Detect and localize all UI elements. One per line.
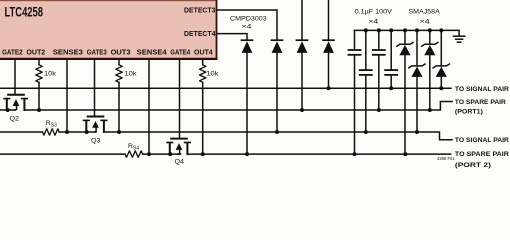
svg-text:×4: ×4 (420, 19, 430, 26)
wire GND top rail (354, 30, 459, 35)
svg-text:SENSE4: SENSE4 (137, 48, 168, 57)
wire GATE2 pin down (14, 60, 16, 94)
wire diode D3 from top edge (301, 0, 303, 40)
resistor 10k (OUT2) (36, 65, 42, 83)
junction Q4 source-rail R4 (168, 152, 172, 156)
svg-text:Q4: Q4 (175, 158, 185, 165)
transistor Q4 MOSFET (167, 139, 190, 155)
resistor RS3 (43, 129, 60, 135)
transistor Q2 MOSFET (4, 95, 27, 110)
resistor 10k (OUT4) (200, 65, 206, 83)
svg-text:OUT2: OUT2 (26, 48, 45, 57)
wire rail R3 TO SIGNAL PAIR port2, broken at Q3 and RS3 (0, 131, 43, 133)
svg-text:GATE3: GATE3 (87, 48, 107, 57)
diode D1 CMPD3003 (242, 40, 253, 154)
svg-text:4258 F01: 4258 F01 (437, 156, 455, 161)
junction Z2-GND rail (415, 28, 419, 32)
svg-text:×4: ×4 (368, 19, 378, 26)
wire OUT3 pin down (118, 60, 120, 65)
junction SENSE3-rail R3 (65, 130, 69, 134)
IC U1 LTC4258 quad PSE controller (0, 0, 217, 60)
wire OUT2 resistor to rail R2 (38, 82, 40, 110)
junction Z3-GND rail (428, 28, 432, 32)
junction D2-rail R3 (275, 130, 279, 134)
junction Q3 source-rail R3 (85, 130, 89, 134)
capacitor C1 0.1uF (349, 30, 361, 154)
capacitor C3 0.1uF (373, 30, 385, 110)
wire rail R2 TO SPARE PAIR port1, broken at Q2 (0, 109, 15, 111)
junction Z1-rail R4 (403, 152, 407, 156)
wire DETECT3 to diode D2 (217, 10, 277, 40)
svg-text:(PORT1): (PORT1) (455, 109, 483, 116)
junction D3-rail R2 (300, 108, 304, 112)
svg-text:SMAJ58A: SMAJ58A (408, 8, 440, 15)
wire OUT4 resistor to rail R4 (202, 82, 204, 154)
junction Z1-GND rail (403, 28, 407, 32)
svg-text:OUT4: OUT4 (194, 48, 214, 57)
junction Z4-GND rail (439, 28, 443, 32)
resistor RS4 (125, 151, 143, 157)
svg-text:TO SIGNAL PAIR: TO SIGNAL PAIR (455, 86, 509, 93)
wire rail R1 TO SIGNAL PAIR port1 (0, 87, 451, 89)
junction D1-rail R4 (245, 152, 249, 156)
transistor Q3 MOSFET (84, 117, 107, 133)
junction C2-GND rail (364, 28, 368, 32)
wire OUT2 pin down (38, 60, 40, 65)
capacitor C4 0.1uF (385, 30, 397, 88)
TVS diode Z3 SMAJ58A (422, 30, 438, 110)
capacitor C2 0.1uF (360, 30, 372, 132)
svg-text:TO SPARE PAIR: TO SPARE PAIR (455, 151, 509, 158)
wire SENSE4 pin down to rail R4 (148, 60, 150, 154)
svg-text:10k: 10k (125, 70, 138, 77)
wire SENSE3 pin down to rail R3 (66, 60, 68, 132)
svg-text:LTC4258: LTC4258 (5, 5, 44, 20)
svg-text:10k: 10k (206, 70, 219, 77)
svg-text:Q2: Q2 (10, 116, 20, 123)
junction D4-rail R1 (327, 86, 331, 90)
wire diode D4 from top edge (328, 0, 330, 40)
junction Z2-rail R3 (415, 130, 419, 134)
resistor 10k (OUT3) (116, 65, 122, 83)
svg-text:10k: 10k (44, 70, 57, 77)
junction C1-rail R4 (353, 152, 357, 156)
diode D2 CMPD3003 (272, 40, 283, 132)
svg-text:GATE4: GATE4 (170, 48, 191, 57)
diode D3 CMPD3003 (297, 40, 308, 110)
junction C2-rail R3 (364, 130, 368, 134)
junction C4-rail R1 (389, 86, 393, 90)
wire rail R4 TO SPARE PAIR port2, broken at Q4 and RS4 (0, 153, 125, 155)
svg-text:SENSE3: SENSE3 (53, 48, 83, 57)
svg-text:OUT3: OUT3 (111, 48, 131, 57)
junction Z3-rail R2 (428, 108, 432, 112)
ground (453, 36, 464, 42)
svg-text:DETECT3: DETECT3 (184, 5, 216, 14)
junction OUT2-rail R2 (37, 108, 41, 112)
svg-text:RS3: RS3 (46, 120, 57, 129)
svg-text:CMPD3003: CMPD3003 (230, 15, 267, 22)
svg-text:Q3: Q3 (91, 138, 101, 145)
svg-text:GATE2: GATE2 (2, 48, 23, 57)
wire GATE3 pin down (94, 60, 96, 116)
junction C3-GND rail (377, 28, 381, 32)
TVS diode Z1 SMAJ58A (397, 30, 413, 154)
junction Q2 source-rail R2 (6, 108, 10, 112)
diode D4 CMPD3003 (323, 40, 334, 88)
svg-text:TO SPARE PAIR: TO SPARE PAIR (455, 99, 506, 106)
wire DETECT4 to diode D1 (217, 34, 247, 40)
TVS diode Z4 SMAJ58A (433, 30, 449, 88)
svg-text:0.1µF 100V: 0.1µF 100V (355, 8, 393, 15)
junction OUT3-rail R3 (117, 130, 121, 134)
junction OUT4-rail R4 (201, 152, 205, 156)
svg-text:(PORT 2): (PORT 2) (455, 162, 491, 169)
svg-text:×4: ×4 (242, 23, 252, 30)
wire OUT3 resistor to rail R3 (118, 82, 120, 132)
junction SENSE4-rail R4 (147, 152, 151, 156)
junction C3-rail R2 (377, 108, 381, 112)
junction C4-GND rail (389, 28, 393, 32)
junction Z4-rail R1 (439, 86, 443, 90)
svg-text:DETECT4: DETECT4 (184, 29, 216, 38)
TVS diode Z2 SMAJ58A (409, 30, 425, 132)
svg-text:TO SIGNAL PAIR: TO SIGNAL PAIR (455, 137, 509, 144)
wire OUT4 pin down (202, 60, 204, 65)
wire GATE4 pin down (179, 60, 181, 138)
